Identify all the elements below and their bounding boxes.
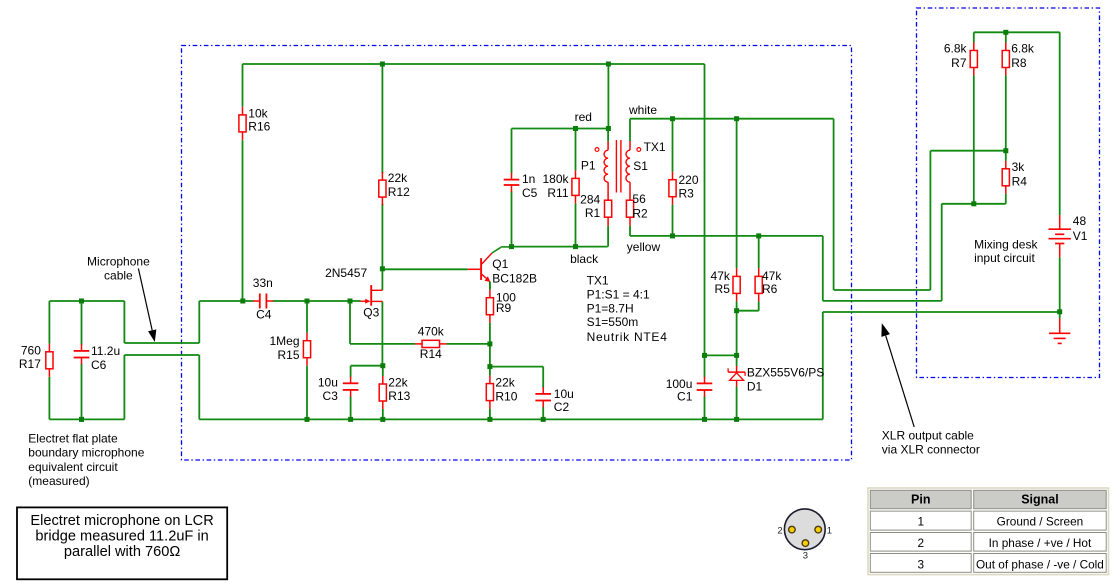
svg-text:6.8k: 6.8k (944, 42, 968, 56)
svg-text:P1: P1 (581, 158, 596, 172)
svg-text:yellow: yellow (627, 240, 661, 254)
svg-text:C3: C3 (323, 389, 339, 403)
svg-text:Out of phase / -ve / Cold: Out of phase / -ve / Cold (976, 557, 1104, 571)
svg-text:R7: R7 (951, 56, 967, 70)
svg-text:R16: R16 (248, 119, 270, 133)
svg-text:V1: V1 (1073, 229, 1088, 243)
svg-text:C4: C4 (256, 308, 272, 322)
svg-text:22k: 22k (388, 171, 408, 185)
svg-text:Q3: Q3 (363, 306, 379, 320)
svg-text:white: white (628, 103, 657, 117)
svg-text:R11: R11 (547, 186, 568, 200)
svg-text:470k: 470k (418, 324, 445, 338)
svg-text:22k: 22k (388, 376, 408, 390)
svg-text:47k: 47k (762, 269, 782, 283)
svg-text:C2: C2 (554, 400, 570, 414)
svg-text:56: 56 (632, 192, 646, 206)
svg-text:10k: 10k (248, 106, 268, 120)
svg-text:R10: R10 (495, 389, 517, 403)
svg-text:BZX555V6/PS: BZX555V6/PS (747, 365, 824, 379)
svg-text:Neutrik NTE4: Neutrik NTE4 (587, 330, 668, 344)
svg-text:Mixing desk: Mixing desk (974, 238, 1038, 252)
svg-text:cable: cable (104, 269, 133, 283)
svg-text:C1: C1 (677, 390, 693, 404)
svg-text:(measured): (measured) (28, 474, 89, 488)
svg-text:Microphone: Microphone (87, 254, 150, 268)
svg-text:R2: R2 (632, 206, 648, 220)
svg-text:R14: R14 (420, 347, 442, 361)
svg-text:284: 284 (580, 192, 600, 206)
svg-text:48: 48 (1073, 214, 1087, 228)
svg-text:1Meg: 1Meg (269, 334, 299, 348)
svg-text:11.2u: 11.2u (91, 344, 120, 358)
svg-text:Pin: Pin (911, 492, 930, 506)
svg-text:R4: R4 (1012, 175, 1028, 189)
svg-text:S1: S1 (633, 159, 648, 173)
svg-text:10u: 10u (318, 376, 338, 390)
svg-text:2: 2 (777, 526, 782, 537)
svg-text:3: 3 (917, 557, 924, 571)
svg-text:equivalent circuit: equivalent circuit (28, 460, 118, 474)
svg-text:TX1: TX1 (587, 273, 609, 287)
svg-text:3k: 3k (1012, 160, 1026, 174)
svg-text:10u: 10u (554, 387, 574, 401)
svg-text:33n: 33n (253, 276, 273, 290)
svg-text:input circuit: input circuit (974, 251, 1035, 265)
svg-text:via XLR connector: via XLR connector (882, 443, 980, 457)
svg-text:220: 220 (679, 173, 699, 187)
svg-text:black: black (570, 252, 599, 266)
svg-text:XLR output cable: XLR output cable (882, 429, 974, 443)
svg-text:760: 760 (21, 343, 41, 357)
svg-text:P1:S1 = 4:1: P1:S1 = 4:1 (587, 288, 650, 302)
svg-text:D1: D1 (747, 380, 763, 394)
svg-text:2: 2 (917, 536, 924, 550)
svg-text:Ground / Screen: Ground / Screen (997, 515, 1084, 529)
svg-text:Electret microphone on LCR: Electret microphone on LCR (30, 513, 213, 529)
svg-text:R12: R12 (388, 185, 410, 199)
svg-text:R6: R6 (762, 282, 778, 296)
svg-text:C5: C5 (522, 186, 538, 200)
svg-text:P1=8.7H: P1=8.7H (587, 301, 634, 315)
svg-text:TX1: TX1 (644, 140, 666, 154)
svg-text:R17: R17 (19, 357, 41, 371)
svg-text:47k: 47k (711, 269, 731, 283)
svg-text:parallel with 760Ω: parallel with 760Ω (64, 544, 180, 560)
svg-text:Electret flat plate: Electret flat plate (28, 432, 118, 446)
svg-text:1: 1 (827, 526, 832, 537)
svg-text:1n: 1n (522, 172, 535, 186)
svg-text:180k: 180k (542, 172, 569, 186)
svg-text:R8: R8 (1011, 56, 1027, 70)
svg-text:R15: R15 (277, 348, 299, 362)
svg-text:6.8k: 6.8k (1011, 42, 1035, 56)
svg-text:boundary microphone: boundary microphone (28, 446, 144, 460)
svg-text:S1=550m: S1=550m (587, 315, 639, 329)
svg-text:Q1: Q1 (492, 257, 508, 271)
svg-text:red: red (575, 110, 592, 124)
svg-text:R13: R13 (388, 389, 410, 403)
svg-text:bridge measured 11.2uF in: bridge measured 11.2uF in (35, 529, 208, 545)
svg-text:C6: C6 (91, 358, 107, 372)
svg-text:22k: 22k (495, 376, 515, 390)
svg-text:BC182B: BC182B (492, 272, 537, 286)
svg-text:2N5457: 2N5457 (325, 266, 367, 280)
svg-text:3: 3 (803, 551, 808, 562)
svg-text:R3: R3 (679, 186, 695, 200)
svg-text:1: 1 (917, 515, 924, 529)
svg-text:Signal: Signal (1021, 492, 1059, 506)
svg-text:R5: R5 (715, 282, 731, 296)
svg-text:In phase / +ve / Hot: In phase / +ve / Hot (989, 536, 1092, 550)
svg-text:R1: R1 (585, 206, 601, 220)
svg-text:R9: R9 (496, 301, 512, 315)
